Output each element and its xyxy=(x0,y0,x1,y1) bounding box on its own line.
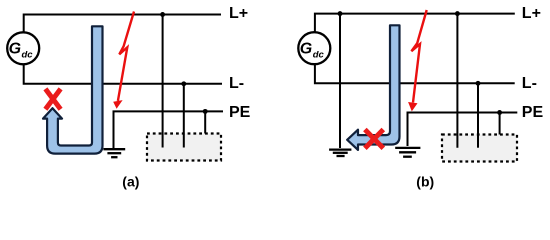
svg-text:G: G xyxy=(300,41,312,58)
svg-text:PE: PE xyxy=(229,104,251,121)
red X mark (figure a) xyxy=(45,89,60,109)
svg-text:(b): (b) xyxy=(416,174,434,190)
wire L- bus (figure b) xyxy=(315,64,515,84)
svg-text:dc: dc xyxy=(313,50,325,61)
node on L+ (figure a) xyxy=(160,12,165,17)
svg-text:L+: L+ xyxy=(229,5,248,22)
node on PE (figure b) xyxy=(497,110,502,115)
wire L- bus (figure a) xyxy=(24,64,222,84)
svg-text:dc: dc xyxy=(22,50,34,61)
node on L- (figure a) xyxy=(181,81,186,86)
load box (dotted rectangle, figure a) xyxy=(147,134,221,161)
node on L- (figure b) xyxy=(476,81,481,86)
svg-text:G: G xyxy=(9,41,21,58)
node on L+ at grounded pole (figure b) xyxy=(338,11,343,16)
red X mark (figure b) xyxy=(365,130,383,149)
wire PE bus (figure a) xyxy=(114,111,224,148)
svg-text:(a): (a) xyxy=(122,174,139,190)
red fault lightning arrow (figure b) xyxy=(408,10,427,111)
dc source G2 circle (figure b) xyxy=(298,32,330,64)
red fault lightning arrow (figure a) xyxy=(113,12,134,109)
wire L+ bus (figure b) xyxy=(315,14,515,33)
wire PE bus (figure b) xyxy=(408,113,518,147)
wire drop from PE to load box (figure b) xyxy=(499,113,501,135)
ground symbol (figure b, below grounded pole wire) xyxy=(329,150,351,156)
ground symbol (figure b, below PE corner) xyxy=(395,148,420,157)
wire drop from PE to load box (figure a) xyxy=(204,111,206,133)
svg-text:L+: L+ xyxy=(522,5,541,22)
dc source G1 circle (figure a) xyxy=(7,32,39,64)
wire drop from L+ to load box (figure a) xyxy=(162,15,164,148)
svg-text:L-: L- xyxy=(229,75,244,92)
load box (dotted rectangle, figure b) xyxy=(442,135,517,162)
node on L+ at load drop (figure b) xyxy=(455,11,460,16)
grounded pole wire (figure b) xyxy=(339,14,341,148)
wire drop from L+ to load box (figure b) xyxy=(456,14,458,148)
node on PE (figure a) xyxy=(203,109,208,114)
blue fault-current U arrow (figure a) xyxy=(43,26,103,153)
wire drop from L- to load box (figure b) xyxy=(477,83,479,147)
svg-text:PE: PE xyxy=(522,104,544,121)
ground symbol (figure a, below PE corner) xyxy=(103,149,125,157)
blue fault-current J arrow (figure b) xyxy=(347,25,399,150)
wire L+ bus (figure a) xyxy=(24,15,221,33)
svg-text:L-: L- xyxy=(522,75,537,92)
wire drop from L- to load box (figure a) xyxy=(183,84,185,148)
